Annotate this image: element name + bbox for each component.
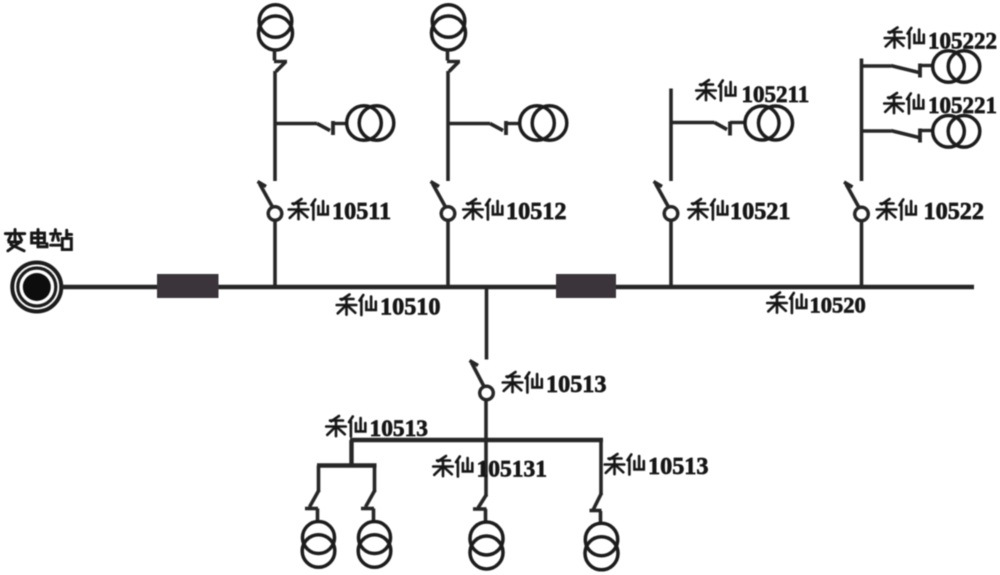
disconnector 朱仙10511 blade <box>260 184 273 208</box>
label 朱仙10521 <box>688 198 790 225</box>
disconnector 朱仙10521 hinge <box>664 207 678 221</box>
disconnector 朱仙10521 tick <box>654 182 663 187</box>
label 朱仙105222 <box>885 28 997 54</box>
label 朱仙10511 <box>289 198 391 225</box>
label 朱仙10520 <box>767 293 866 318</box>
switch blade T10 <box>478 495 487 509</box>
wire branch1 vertical <box>273 71 277 181</box>
label 朱仙105221 <box>884 93 997 118</box>
svg-text:105211: 105211 <box>742 82 810 107</box>
switch blade T9 <box>366 490 376 507</box>
label 朱仙10510 <box>337 294 441 321</box>
transformer T6 <box>933 51 980 83</box>
svg-text:10522: 10522 <box>924 198 984 225</box>
label 朱仙10513 right <box>605 453 709 480</box>
transformer T1 <box>259 5 293 50</box>
wire branch3 vertical <box>669 89 673 182</box>
cable section box 2 <box>556 274 616 298</box>
transformer T7 <box>933 116 980 148</box>
disconnector 朱仙10521 blade <box>656 184 669 208</box>
wire disconnector to bus branch1 <box>273 221 277 286</box>
wire tick to T5 <box>730 121 746 124</box>
switch blade T6 <box>891 66 919 73</box>
svg-text:10512: 10512 <box>506 198 566 225</box>
switch tick T8 <box>305 507 318 511</box>
wire disconnector to bus branch2 <box>446 221 450 286</box>
switch blade T8 <box>310 490 320 507</box>
label 朱仙105131 <box>433 456 547 483</box>
wire tick to T7 <box>920 129 934 132</box>
wire tick to T2 <box>333 122 348 125</box>
switch blade T4 <box>490 124 503 131</box>
wire T1 to switch <box>273 50 277 61</box>
svg-text:10520: 10520 <box>810 293 866 318</box>
switch blade T7 <box>891 131 919 138</box>
wire tick to T9 <box>372 509 376 523</box>
switch tick T10 <box>473 507 487 511</box>
svg-text:10521: 10521 <box>730 198 790 225</box>
drop wire second <box>373 466 377 493</box>
wire branch2 tap <box>448 122 490 125</box>
label 朱仙10513 disconnector <box>503 371 607 398</box>
wire T3 to switch <box>446 50 450 61</box>
transformer T8 <box>302 522 335 568</box>
disconnector 朱仙10522 tick <box>844 182 853 187</box>
wire tick to T11 <box>599 511 603 523</box>
switch tick branch2 top <box>447 60 460 63</box>
wire disconnector to feeder <box>484 400 488 439</box>
wire tick to T10 <box>484 509 488 523</box>
transformer T3 <box>432 5 466 50</box>
wire disconnector to bus branch4 <box>860 221 864 285</box>
transformer T10 <box>470 522 503 569</box>
transformer T11 <box>585 523 618 570</box>
transformer T9 <box>358 522 391 568</box>
wire branch4 tap A <box>862 64 892 67</box>
switch tick T6 <box>918 64 922 78</box>
disconnector 朱仙10512 tick <box>431 182 440 187</box>
svg-text:105222: 105222 <box>928 29 997 54</box>
disconnector 朱仙10522 blade <box>846 184 859 208</box>
disconnector 朱仙10522 hinge <box>855 207 869 221</box>
transformer T2 <box>347 106 394 141</box>
wire tick to T6 <box>920 64 934 67</box>
wire disconnector to bus branch3 <box>669 221 673 286</box>
drop wire left <box>317 466 321 493</box>
switch tick T11 <box>590 509 602 513</box>
svg-text:10513: 10513 <box>546 371 606 398</box>
switch tick branch1 top <box>274 60 287 63</box>
label 朱仙10512 <box>463 198 566 225</box>
switch blade branch1 top <box>276 62 286 72</box>
feeder left stub <box>349 440 353 466</box>
svg-text:105221: 105221 <box>928 93 997 118</box>
wire tick to T8 <box>316 509 320 523</box>
transformer T5 <box>745 106 793 140</box>
disconnector 朱仙10511 hinge <box>268 207 282 221</box>
transformer T4 <box>520 106 567 141</box>
wire feeder to T10 <box>484 440 488 497</box>
svg-text:10511: 10511 <box>332 198 391 225</box>
wire branch4 vertical <box>860 59 864 182</box>
label 朱仙10513 feeder <box>326 416 428 442</box>
label 朱仙10522 <box>877 198 984 225</box>
label 变电站 <box>5 230 71 251</box>
wire branch4 tap B <box>862 129 892 132</box>
disconnector 朱仙10512 hinge <box>441 207 455 221</box>
svg-text:10513: 10513 <box>370 416 428 442</box>
switch blade T2 <box>317 124 330 131</box>
wire branch1 tap <box>275 122 317 125</box>
switch blade T5 <box>715 123 728 130</box>
wire branch3 tap <box>671 121 715 124</box>
wire branch2 vertical <box>446 71 450 181</box>
wire tick to T4 <box>506 122 521 125</box>
wire bus to disconnector 10513 <box>485 287 489 360</box>
disconnector 朱仙10513 blade <box>472 363 485 387</box>
disconnector 朱仙10513 tick <box>470 361 479 366</box>
bus wire main feeder <box>62 285 974 289</box>
svg-text:10513: 10513 <box>648 453 708 480</box>
switch tick T2 <box>331 121 335 135</box>
cable section box 1 <box>157 274 219 298</box>
disconnector 朱仙10512 blade <box>433 184 446 208</box>
switch blade branch2 top <box>449 62 459 72</box>
svg-text:10510: 10510 <box>380 294 440 321</box>
switch tick T4 <box>504 121 508 135</box>
svg-text:105131: 105131 <box>477 457 548 483</box>
feeder right drop <box>599 440 603 495</box>
switch blade T11 <box>593 493 602 511</box>
feeder sub horizontal <box>317 463 377 467</box>
switch tick T5 <box>728 122 732 136</box>
label 朱仙105211 <box>696 80 809 107</box>
switch tick T9 <box>361 507 374 511</box>
substation symbol <box>12 263 61 312</box>
disconnector 朱仙10513 hinge <box>480 386 494 400</box>
feeder wire 朱仙10513 horizontal <box>350 438 603 442</box>
switch tick T7 <box>918 129 922 143</box>
disconnector 朱仙10511 tick <box>258 182 267 187</box>
